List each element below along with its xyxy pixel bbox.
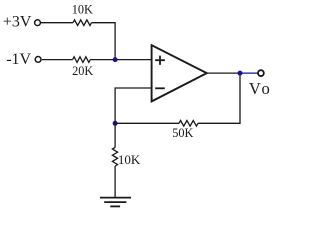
node A junction — [113, 57, 118, 62]
svg-text:50K: 50K — [172, 126, 193, 140]
resistor R1 10K — [73, 20, 92, 26]
wire — [42, 59, 73, 61]
wire — [92, 23, 116, 60]
svg-text:Vo: Vo — [249, 79, 270, 98]
wire — [115, 59, 152, 61]
resistor R4 10K — [112, 148, 117, 167]
svg-text:20K: 20K — [72, 64, 93, 78]
wire — [90, 59, 115, 61]
plus input mark — [155, 56, 165, 65]
wire — [41, 22, 73, 24]
wire — [207, 72, 240, 74]
minus input mark — [155, 87, 165, 89]
wire — [114, 123, 116, 147]
wire — [115, 88, 152, 123]
wire output — [240, 72, 258, 74]
node C junction — [238, 71, 243, 76]
wire — [115, 122, 179, 124]
node B junction — [113, 121, 118, 126]
svg-text:-1V: -1V — [6, 51, 31, 68]
svg-text:10K: 10K — [118, 152, 141, 167]
ground — [100, 198, 131, 207]
svg-text:+3V: +3V — [3, 14, 32, 31]
wire — [114, 166, 116, 198]
terminal -1V — [35, 57, 41, 63]
op-amp U1 — [152, 45, 207, 101]
wire — [198, 73, 240, 123]
resistor R2 20K — [73, 57, 91, 63]
terminal Vo — [258, 70, 264, 76]
terminal +3V — [35, 20, 41, 26]
svg-text:10K: 10K — [72, 3, 93, 17]
resistor R3 50K — [179, 121, 198, 127]
